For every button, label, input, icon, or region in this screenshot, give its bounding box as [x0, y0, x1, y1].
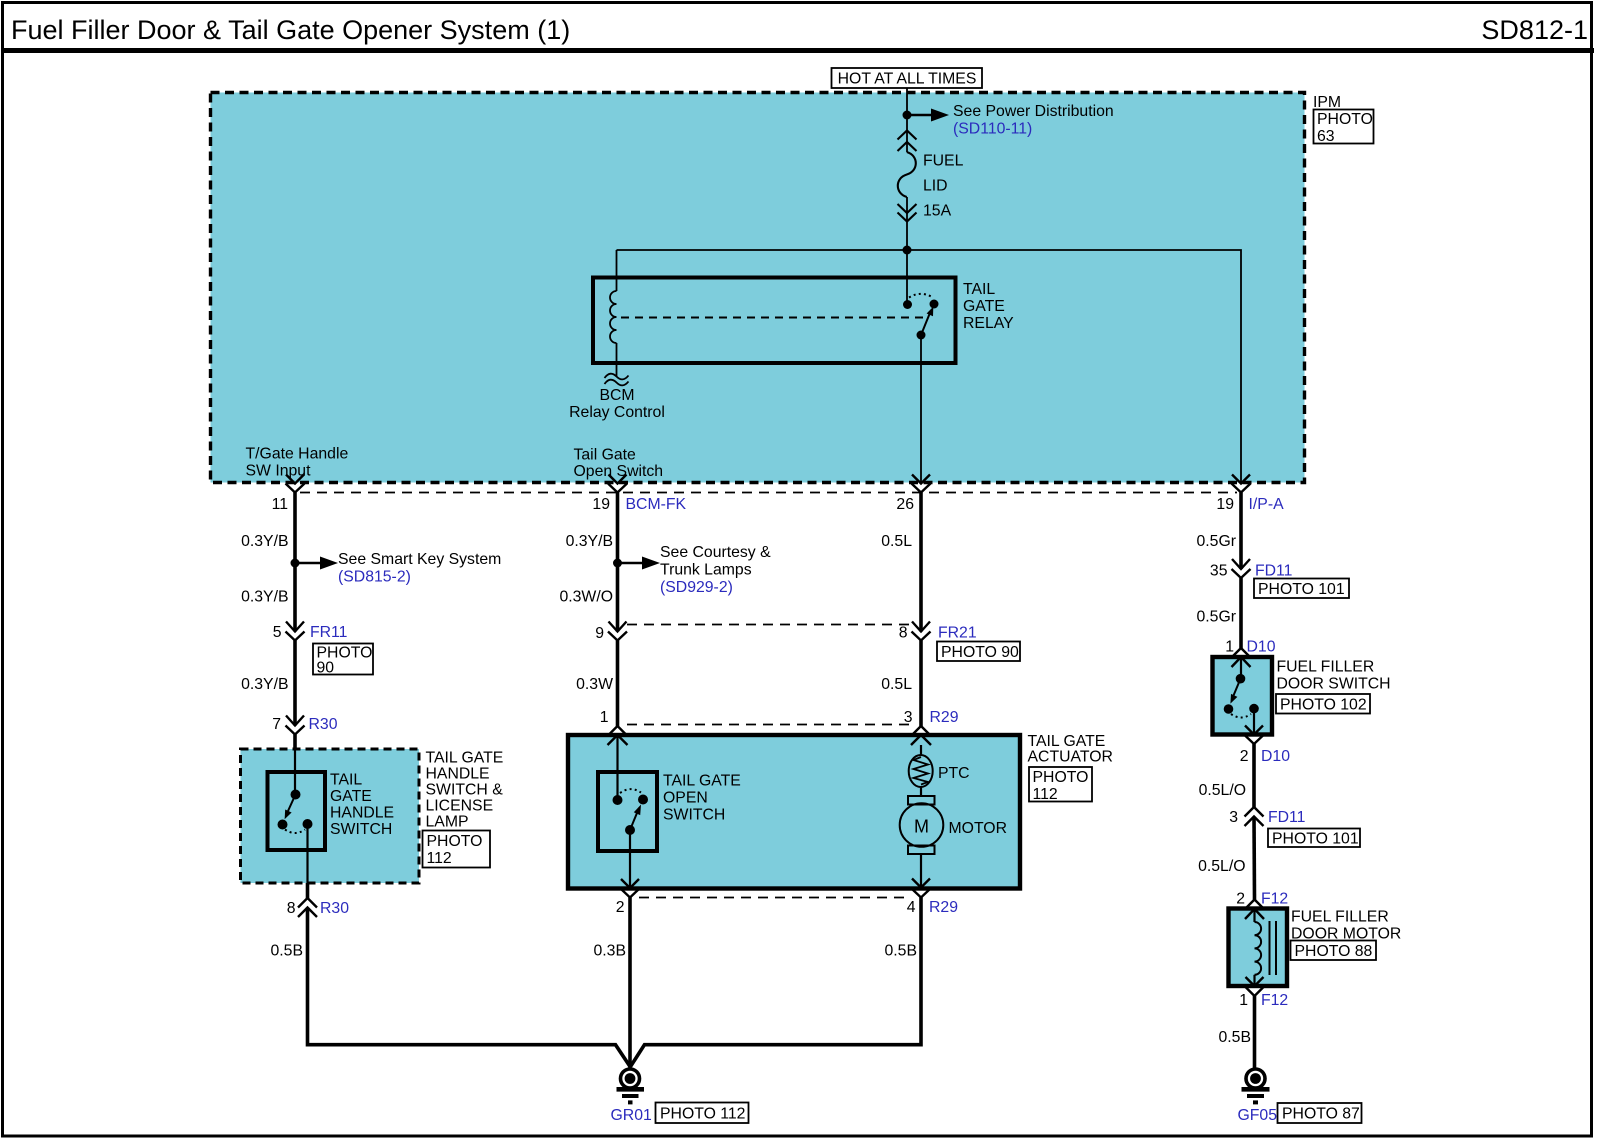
continuation symbol: BCM Relay Control — [605, 374, 629, 386]
svg-text:TAIL GATE: TAIL GATE — [426, 750, 504, 767]
svg-text:35: 35 — [1210, 563, 1228, 580]
svg-text:PHOTO: PHOTO — [1317, 111, 1373, 128]
svg-text:R29: R29 — [930, 709, 959, 726]
wire 0.3Y/B: connector 5 to pin 7 — [293, 641, 297, 726]
wire 0.5L: pin 26 down — [919, 493, 923, 632]
svg-text:I/P-A: I/P-A — [1249, 496, 1285, 513]
open switch travel (dotted arc) — [620, 789, 641, 793]
ground GR01 — [611, 1069, 749, 1124]
open switch blade with arrow — [630, 811, 638, 831]
svg-text:2: 2 — [616, 899, 625, 916]
pin 3 R29 into actuator — [911, 726, 931, 745]
svg-text:See Power Distribution: See Power Distribution — [953, 103, 1114, 120]
svg-text:TAIL GATE: TAIL GATE — [1028, 733, 1106, 750]
label: TAIL GATE ACTUATOR + PHOTO 112 — [1028, 733, 1113, 803]
wire: relay switch output to pin 26 — [920, 335, 922, 482]
svg-text:11: 11 — [272, 496, 289, 513]
MOTOR inside actuator — [900, 787, 1007, 854]
svg-text:1: 1 — [600, 709, 609, 726]
svg-text:PHOTO 87: PHOTO 87 — [1282, 1106, 1360, 1123]
wire: fuse to bus junction — [906, 222, 908, 250]
svg-text:2: 2 — [1236, 891, 1245, 908]
svg-text:SWITCH: SWITCH — [330, 821, 392, 838]
svg-text:HANDLE: HANDLE — [330, 805, 394, 822]
handle switch blade with arrow — [288, 795, 296, 812]
svg-text:LAMP: LAMP — [426, 814, 469, 831]
connector row dashed line 9-8 — [627, 624, 911, 626]
svg-text:PHOTO 90: PHOTO 90 — [941, 644, 1019, 661]
svg-text:BCM-FK: BCM-FK — [626, 496, 687, 513]
wire: relay coil to BCM Relay Control — [616, 343, 618, 377]
wire 0.5L/O down to connector 3 — [1252, 744, 1256, 807]
svg-text:FUEL: FUEL — [923, 153, 964, 170]
wire to door switch common — [1240, 657, 1242, 679]
svg-text:F12: F12 — [1261, 891, 1288, 908]
svg-text:IPM: IPM — [1313, 94, 1341, 111]
wire 0.5Gr: pin 19 I/P-A down — [1239, 493, 1243, 570]
pin 2 D10 below door switch — [1245, 735, 1264, 744]
pin 1 F12 below motor — [1245, 987, 1264, 997]
svg-text:3: 3 — [1229, 809, 1238, 826]
svg-text:SWITCH: SWITCH — [663, 807, 725, 824]
svg-text:1: 1 — [1239, 992, 1248, 1009]
pin 26 — [912, 475, 931, 493]
svg-text:GR01: GR01 — [611, 1107, 652, 1124]
svg-text:0.5L/O: 0.5L/O — [1198, 858, 1245, 875]
wire from door switch to pin 2 — [1253, 709, 1255, 735]
wire 0.5L/O to pin 2 F12 — [1252, 817, 1256, 900]
svg-text:0.5L: 0.5L — [881, 676, 912, 693]
wire open switch to pin 2 — [629, 830, 631, 888]
svg-text:DOOR SWITCH: DOOR SWITCH — [1277, 676, 1391, 693]
svg-text:0.3W/O: 0.3W/O — [559, 589, 613, 606]
svg-text:4: 4 — [907, 899, 916, 916]
connector FR21 pin 8 — [912, 622, 931, 641]
relay mechanical link (dashed) — [621, 317, 926, 319]
svg-text:FD11: FD11 — [1268, 809, 1306, 826]
svg-text:See Courtesy &: See Courtesy & — [660, 544, 771, 561]
label: TAIL GATE HANDLE SWITCH & LICENSE LAMP — [423, 750, 504, 868]
component box: FUEL FILLER DOOR SWITCH — [1213, 657, 1273, 735]
label: FUEL FILLER DOOR SWITCH + PHOTO 102 — [1276, 659, 1391, 714]
pin row dashed line — [300, 492, 1237, 494]
wire 0.5B to ground GF05 — [1253, 996, 1257, 1068]
node: bus junction — [903, 246, 912, 255]
door switch travel (dotted arc) — [1231, 714, 1251, 718]
label: FUEL FILLER DOOR MOTOR + PHOTO 88 — [1291, 909, 1402, 961]
relay TAIL GATE RELAY — [593, 250, 1014, 363]
wire 0.5B to ground bus — [308, 908, 631, 1067]
connector pin 9 — [608, 622, 627, 641]
wire from switch to box bottom — [306, 824, 308, 883]
photo box PHOTO 90 — [937, 642, 1020, 662]
fuse value label — [923, 153, 964, 220]
wire 0.3B to ground — [628, 898, 632, 1069]
svg-text:3: 3 — [904, 709, 913, 726]
svg-text:GF05: GF05 — [1238, 1107, 1278, 1124]
svg-text:(SD815-2): (SD815-2) — [338, 569, 411, 586]
wire to open switch — [616, 735, 618, 800]
svg-text:2: 2 — [1240, 748, 1249, 765]
svg-text:1: 1 — [1225, 639, 1234, 656]
svg-text:0.5B: 0.5B — [1219, 1029, 1252, 1046]
svg-text:GATE: GATE — [963, 298, 1005, 315]
relay movable contact — [917, 331, 926, 340]
svg-text:0.3Y/B: 0.3Y/B — [241, 676, 288, 693]
svg-text:Fuel Filler Door & Tail Gate O: Fuel Filler Door & Tail Gate Opener Syst… — [11, 15, 570, 45]
wire into handle switch box — [293, 735, 297, 751]
svg-text:MOTOR: MOTOR — [949, 820, 1008, 837]
wire 0.3Y/B: pin 11 down — [293, 493, 297, 632]
pin 2 arrowhead inside — [621, 879, 639, 888]
relay contact travel (dotted arc) — [909, 294, 932, 298]
pin 19 BCM-FK — [608, 475, 627, 493]
svg-text:HANDLE: HANDLE — [426, 766, 490, 783]
svg-text:(SD929-2): (SD929-2) — [660, 579, 733, 596]
wire to switch common — [294, 749, 296, 795]
svg-text:0.3Y/B: 0.3Y/B — [241, 589, 288, 606]
svg-text:112: 112 — [427, 850, 452, 867]
svg-text:TAIL: TAIL — [963, 281, 995, 298]
handle switch travel (dotted arc) — [285, 830, 305, 834]
open switch contacts — [613, 795, 623, 805]
pin row dashed line 2-4 — [639, 897, 911, 899]
svg-text:8: 8 — [899, 625, 908, 642]
svg-text:D10: D10 — [1247, 639, 1276, 656]
connector R30 pin 8 — [298, 898, 317, 917]
door switch blade with arrow — [1234, 679, 1241, 696]
svg-text:(SD110-11): (SD110-11) — [953, 121, 1032, 138]
svg-text:Open Switch: Open Switch — [574, 463, 664, 480]
svg-text:0.5B: 0.5B — [271, 943, 304, 960]
svg-text:See Smart Key System: See Smart Key System — [338, 551, 501, 568]
svg-text:0.3W: 0.3W — [576, 676, 613, 693]
svg-text:LICENSE: LICENSE — [426, 798, 494, 815]
svg-text:PTC: PTC — [938, 765, 970, 782]
svg-text:0.3Y/B: 0.3Y/B — [566, 533, 613, 550]
svg-text:7: 7 — [272, 716, 281, 733]
node: power distribution branch junction — [903, 111, 912, 120]
svg-text:0.3Y/B: 0.3Y/B — [241, 533, 288, 550]
component box: FUEL FILLER DOOR MOTOR — [1229, 909, 1288, 987]
connector FD11 pin 3 (up) — [1245, 807, 1264, 826]
ECU block IPM (PHOTO 63) — [211, 93, 1374, 483]
wire: bus horizontal (coil feed and I/P-A feed) — [617, 250, 1242, 483]
power label HOT AT ALL TIMES — [832, 68, 983, 88]
svg-text:63: 63 — [1317, 128, 1335, 145]
photo box PHOTO 101 — [1254, 579, 1349, 599]
svg-text:SD812-1: SD812-1 — [1481, 15, 1588, 45]
svg-text:PHOTO: PHOTO — [427, 833, 483, 850]
wire 0.3W — [616, 641, 620, 727]
svg-text:TAIL: TAIL — [330, 772, 362, 789]
svg-text:Tail Gate: Tail Gate — [574, 447, 637, 464]
wire 0.3Y/B: pin 19 down — [616, 493, 620, 632]
relay contact: NO fixed — [930, 300, 939, 309]
svg-text:M: M — [914, 817, 929, 837]
svg-text:PHOTO 102: PHOTO 102 — [1280, 697, 1367, 714]
pin 4 R29 below actuator — [912, 889, 931, 898]
relay coil — [610, 291, 616, 343]
wire 0.5B col3 to ground bus — [631, 898, 922, 1067]
svg-text:PHOTO 101: PHOTO 101 — [1258, 581, 1345, 598]
relay blade with arrow — [921, 314, 930, 335]
svg-text:0.5Gr: 0.5Gr — [1196, 609, 1236, 626]
component box: TAIL GATE HANDLE SWITCH (dashed) — [241, 749, 420, 883]
motor box bottom arrowhead — [1246, 977, 1264, 986]
pin row dashed line 1-3 — [627, 724, 911, 726]
PTC inside actuator — [909, 745, 970, 787]
svg-text:BCM: BCM — [599, 387, 634, 404]
svg-text:FUEL FILLER: FUEL FILLER — [1291, 909, 1389, 926]
svg-text:T/Gate Handle: T/Gate Handle — [246, 446, 349, 463]
arrow: See Courtesy & Trunk Lamps (SD929-2) — [618, 544, 772, 596]
relay contact: fixed common — [906, 250, 908, 301]
svg-text:PHOTO: PHOTO — [1033, 769, 1089, 786]
wire: HOT feed into IPM — [906, 88, 908, 131]
tail gate open switch rect — [598, 772, 657, 851]
handle switch contacts — [291, 790, 301, 800]
pin 1 D10 into fuel filler door switch — [1232, 648, 1251, 667]
svg-text:5: 5 — [273, 624, 282, 641]
wire out of handle switch box — [306, 883, 310, 898]
fuse FUEL LID 15A — [898, 131, 917, 223]
svg-text:SWITCH &: SWITCH & — [426, 782, 504, 799]
svg-text:0.5L: 0.5L — [881, 533, 912, 550]
svg-text:Relay Control: Relay Control — [569, 404, 665, 421]
svg-text:HOT AT ALL TIMES: HOT AT ALL TIMES — [838, 71, 977, 88]
switch rect — [268, 772, 326, 850]
svg-text:26: 26 — [896, 496, 914, 513]
arrow: See Smart Key System (SD815-2) — [295, 551, 501, 586]
svg-text:PHOTO 88: PHOTO 88 — [1295, 943, 1373, 960]
svg-text:FR11: FR11 — [310, 624, 348, 641]
connector FR11 pin 5 — [286, 622, 305, 641]
svg-text:0.5Gr: 0.5Gr — [1196, 533, 1236, 550]
ground GF05 — [1238, 1069, 1362, 1124]
svg-text:8: 8 — [287, 900, 296, 917]
svg-text:0.5L/O: 0.5L/O — [1199, 782, 1246, 799]
svg-text:9: 9 — [595, 625, 604, 642]
svg-text:112: 112 — [1033, 786, 1058, 803]
svg-text:OPEN: OPEN — [663, 790, 708, 807]
svg-text:TAIL GATE: TAIL GATE — [663, 773, 741, 790]
door switch contacts — [1236, 674, 1246, 684]
svg-text:FD11: FD11 — [1255, 563, 1293, 580]
svg-text:R30: R30 — [320, 900, 349, 917]
photo box PHOTO 90 — [313, 644, 373, 677]
wire 0.5L: connector 8 to pin 3 — [919, 641, 923, 727]
svg-text:F12: F12 — [1261, 992, 1288, 1009]
svg-text:19: 19 — [592, 496, 610, 513]
node: courtesy lamps branch — [613, 559, 622, 568]
svg-text:90: 90 — [317, 660, 335, 677]
svg-text:PHOTO 112: PHOTO 112 — [660, 1106, 745, 1123]
svg-text:FR21: FR21 — [938, 625, 977, 642]
svg-text:0.5B: 0.5B — [885, 943, 918, 960]
pin 4 arrowhead inside — [912, 879, 930, 888]
node: smart key branch — [291, 559, 300, 568]
svg-text:15A: 15A — [923, 203, 952, 220]
pin 2 F12 into fuel filler door motor — [1245, 900, 1264, 920]
motor coil — [1255, 909, 1277, 986]
svg-text:19: 19 — [1216, 496, 1234, 513]
svg-text:PHOTO 101: PHOTO 101 — [1272, 831, 1359, 848]
pin 1 into tail gate open switch — [608, 726, 628, 745]
svg-text:RELAY: RELAY — [963, 315, 1014, 332]
svg-text:ACTUATOR: ACTUATOR — [1028, 749, 1113, 766]
connector FD11 pin 35 — [1232, 559, 1251, 578]
wire 0.5Gr: connector 35 to pin 1 D10 — [1239, 578, 1243, 648]
pin 19 I/P-A — [1232, 475, 1251, 493]
wire motor to pin 4 — [920, 854, 922, 888]
pin 11 (T/Gate Handle SW Input) — [286, 475, 305, 493]
component box: TAIL GATE ACTUATOR — [568, 735, 1020, 889]
photo box PHOTO 101 — [1268, 829, 1360, 848]
svg-text:D10: D10 — [1261, 748, 1290, 765]
svg-text:0.3B: 0.3B — [594, 943, 627, 960]
pin 2 below actuator — [621, 889, 640, 898]
svg-text:FUEL FILLER: FUEL FILLER — [1277, 659, 1375, 676]
svg-text:Trunk Lamps: Trunk Lamps — [660, 562, 752, 579]
svg-text:R30: R30 — [309, 716, 338, 733]
connector R30 pin 7 — [286, 716, 305, 735]
svg-text:GATE: GATE — [330, 788, 372, 805]
svg-text:LID: LID — [923, 178, 948, 195]
svg-text:R29: R29 — [929, 899, 958, 916]
arrow: See Power Distribution (SD110-11) — [907, 103, 1114, 138]
